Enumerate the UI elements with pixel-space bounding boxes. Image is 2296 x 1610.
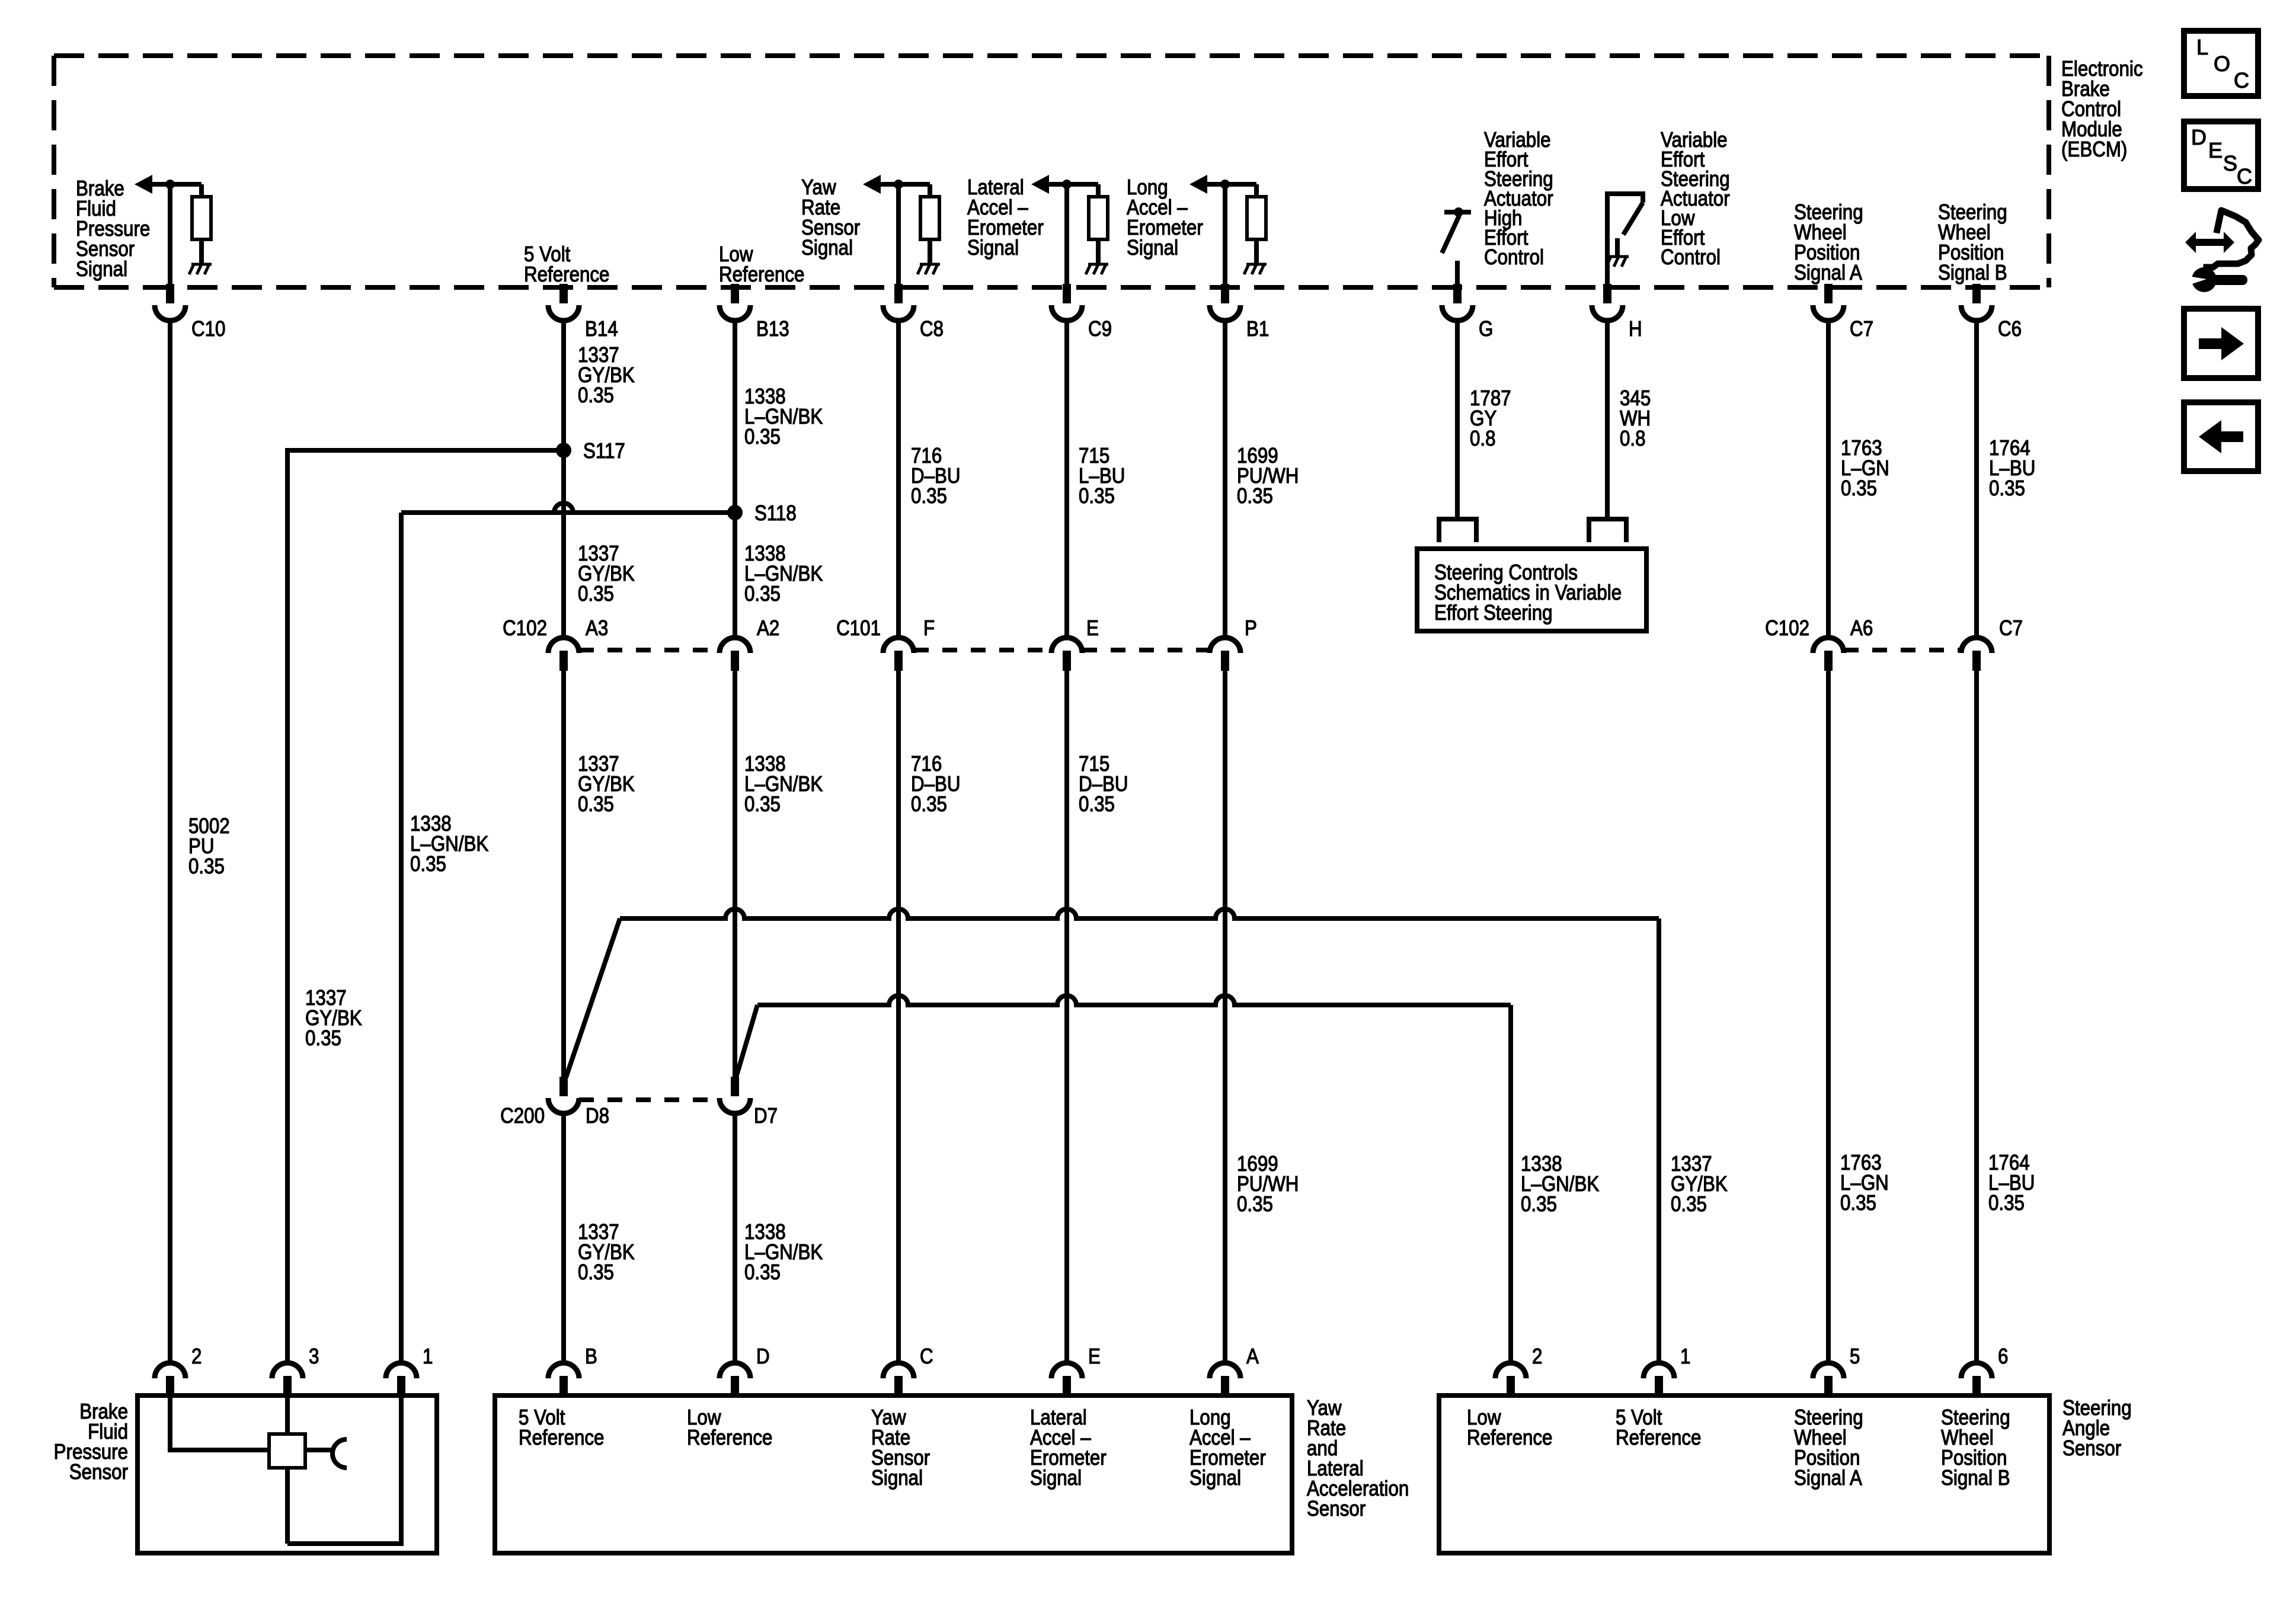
icon box DESC [2184,121,2258,189]
pin label B14 [585,317,618,341]
svg-text:2: 2 [1532,1345,1542,1369]
wire 5002 PU (C10 to brake fluid pressure sensor pin 2) [168,320,172,1364]
terminal label Steering Wheel Position Signal B (pin 6) [1941,1406,2010,1490]
component box Brake Fluid Pressure Sensor [137,1395,437,1553]
net label Variable Effort Steering Actuator High Effort Control [1484,128,1553,270]
svg-text:C102: C102 [503,616,547,641]
off-page connector bracket (G wire into steering controls) [1439,519,1476,542]
pin label D [756,1345,770,1369]
pin label A6 [1850,616,1873,641]
module box EBCM (dashed outline) [54,56,2049,287]
wire 1338 L-GN/BK (B13 down to splice S118) [733,320,737,513]
connector pin C (component side) [883,1363,914,1396]
svg-text:3: 3 [309,1345,319,1369]
connector label C102 (right) [1765,616,1809,641]
wire 1338 L-GN/BK (C102 A2 to C200 D7) [733,671,737,1080]
wire 1337 GY/BK (S117 to C102 A3) [561,450,566,638]
terminal label Steering Wheel Position Signal A (pin 5) [1794,1406,1863,1490]
svg-text:A3: A3 [586,616,608,641]
svg-text:E: E [1086,616,1099,641]
wire 345 WH (H down to steering controls) [1605,320,1610,519]
svg-text:C102: C102 [1765,616,1809,641]
wire resistor to ground [1096,239,1101,263]
node label S117 [583,439,625,463]
terminal label Low Reference (pin D) [687,1406,772,1450]
ground (EBCM internal, yaw rate signal) [917,264,940,274]
wire 1763 L-GN (C7 to C102 A6) [1826,320,1831,638]
pin label E [1088,1345,1101,1369]
wire junction to pin C10 [168,184,172,288]
resistor (EBCM internal pull-up, yaw rate signal) [920,184,939,239]
svg-text:D7: D7 [754,1104,778,1128]
net label Long Accel - Erometer Signal [1127,175,1203,260]
wire 1337 GY/BK long branch (C200 D8 diagonal up to horizontal run, right to steering angle sensor pin 1) [566,909,1659,1364]
wire 1338 L-GN/BK branch (S118 left, hops B14 wire, down to sensor pin 1) [401,503,735,1364]
net label Yaw Rate Sensor Signal [801,175,860,260]
wire label 1338 L-GN/BK 0.35 (bottom left) [744,1220,823,1285]
connector label C200 [500,1104,545,1128]
net label Lateral Accel - Erometer Signal [967,175,1044,260]
net label 5 Volt Reference (B14) [524,242,609,287]
wire 1338 L-GN/BK (C200 D7 to yaw sensor pin D) [733,1113,737,1364]
connector pin 1 (component side) [1643,1363,1674,1396]
connector C102 pin C7 (right) [1961,638,1992,671]
wire 1337 GY/BK branch (S117 left and down to sensor pin 3) [287,450,564,1364]
wire junction to pin B1 [1223,184,1227,288]
wire label 1337 GY/BK 0.35 (below B14) [578,343,635,408]
wire (resistor to wiper) [305,1448,332,1452]
connector pin D (component side) [720,1363,750,1396]
connector C101 pin F [883,638,914,671]
pin label E [1086,616,1099,641]
connector C102 pin A6 (right) [1813,638,1844,671]
connector pin 3 (component side) [272,1363,303,1396]
wire 1787 GY (G down to steering controls) [1455,320,1460,519]
svg-text:C: C [2234,68,2249,92]
connector link dash C102 A3-A2 [579,648,720,652]
connector pin 5 (component side) [1813,1363,1844,1396]
connector pin E (component side) [1051,1363,1082,1396]
svg-text:A6: A6 [1850,616,1873,641]
pin label C6 [1998,317,2022,341]
pin label G [1479,317,1493,341]
wire label 1787 GY 0.8 [1470,386,1511,451]
pin label B13 [756,317,789,341]
pin label C8 [920,317,944,341]
terminal label 5 Volt Reference (pin 1) [1616,1406,1701,1450]
svg-text:VariableEffortSteeringActuator: VariableEffortSteeringActuatorHighEffort… [1484,128,1553,270]
pin label 5 [1850,1345,1860,1369]
wire label 715 L-BU 0.35 (below C9) [1079,444,1125,508]
wire 1337 GY/BK (C200 D8 to yaw sensor pin B) [561,1113,566,1364]
svg-text:5: 5 [1850,1345,1860,1369]
pin label 1 [423,1345,433,1369]
svg-text:E: E [2208,138,2223,162]
internal driver: brake fluid pressure sensor signal arrow and junction [135,175,202,194]
net label Brake Fluid Pressure Sensor Signal [76,177,150,281]
wire label 345 WH 0.8 [1620,386,1651,451]
wire 1764 L-BU (C102 C7 to steering angle sensor pin 6) [1974,671,1979,1364]
pin label 1 [1680,1345,1690,1369]
wire label 1763 L-GN 0.35 (lower) [1840,1151,1889,1215]
wire 1337 GY/BK (B14 down to splice S117) [561,320,566,450]
pin label 3 [309,1345,319,1369]
pin label C7 [1850,317,1873,341]
wire 1764 L-BU (C6 to C102 C7) [1974,320,1979,638]
wire 1699 PU/WH (C101 P to yaw sensor pin A) [1223,671,1227,1364]
wire 1699 PU/WH (B1 to C101 P) [1223,320,1227,638]
connector pin C10 (EBCM) [155,284,186,321]
wire (pin 2 internal) [170,1396,269,1450]
connector C102 pin A2 [720,638,750,671]
wire (pin 3 internal through element) [285,1396,290,1544]
resistor (EBCM internal pull-up, brake fluid signal) [192,184,211,239]
ground (EBCM internal, brake fluid signal) [189,264,212,274]
pin label C7 [1999,616,2023,641]
wire 715 D-BU (C101 E to yaw sensor pin E) [1064,671,1069,1364]
pin label C [920,1345,933,1369]
connector label C102 (left) [503,616,547,641]
wire 1337 GY/BK (C102 A3 to C200 D8) [561,671,566,1080]
pin label B [585,1345,597,1369]
connector pin B14 (EBCM) [548,284,579,321]
wire label 715 D-BU 0.35 (mid) [1079,752,1128,817]
wire 716 D-BU (C8 to C101 F) [896,320,901,638]
svg-text:C7: C7 [1999,616,2023,641]
terminal label Long Accel - Erometer Signal (pin A) [1189,1406,1266,1490]
pin label D8 [586,1104,609,1128]
pin label A3 [586,616,608,641]
wire label 1337 GY/BK 0.35 (right lower) [1671,1152,1728,1217]
svg-text:S118: S118 [754,501,797,526]
pin label 2 [1532,1345,1542,1369]
component box Yaw Rate and Lateral Acceleration Sensor [495,1395,1292,1553]
connector C102 pin A3 [548,638,579,671]
connector C200 pin D8 [548,1077,579,1113]
internal driver: long accelerometer signal arrow and junction [1189,175,1256,194]
wire label 1763 L-GN 0.35 (below C7) [1841,436,1889,501]
pin label C9 [1088,317,1112,341]
icon box arrow right [2184,309,2258,378]
svg-text:E: E [1088,1345,1101,1369]
connector C101 pin P [1210,638,1240,671]
svg-text:C: C [2237,164,2252,188]
net label Variable Effort Steering Actuator Low Effort Control [1661,128,1730,270]
svg-text:L: L [2196,35,2208,59]
svg-text:C9: C9 [1088,317,1112,341]
connector pin C7 (EBCM) [1813,284,1844,321]
svg-text:C: C [920,1345,933,1369]
ground (EBCM internal, low effort control) [1606,257,1629,267]
svg-text:SteeringWheelPositionSignal B: SteeringWheelPositionSignal B [1938,200,2007,285]
terminal label Low Reference (pin 2) [1467,1406,1552,1450]
svg-text:S: S [2223,151,2237,175]
wire junction to pin C8 [896,184,901,288]
off-page connector bracket (H wire into steering controls) [1589,519,1626,542]
resistor (pressure sensing element) [269,1434,305,1468]
wire 1763 L-GN (C102 A6 to steering angle sensor pin 5) [1826,671,1831,1364]
pin label 6 [1998,1345,2008,1369]
svg-text:C8: C8 [920,317,944,341]
svg-text:C6: C6 [1998,317,2022,341]
pin label F [923,616,935,641]
module label Electronic Brake Control Module (EBCM) [2061,57,2142,162]
ground (EBCM internal, lateral accel signal) [1086,264,1108,274]
terminal label 5 Volt Reference (pin B) [519,1406,604,1450]
terminal label Lateral Accel - Erometer Signal (pin E) [1030,1406,1107,1490]
svg-text:D: D [2191,125,2207,149]
connector pin C6 (EBCM) [1961,284,1992,321]
transducer symbol (open arc) [332,1439,347,1468]
svg-text:2: 2 [191,1345,202,1369]
wire label 5002 PU 0.35 [188,814,230,879]
wire resistor to ground [928,239,932,263]
wire label 1338 L-GN/BK 0.35 (mid) [744,752,823,817]
svg-text:B14: B14 [585,317,618,341]
svg-text:A: A [1246,1345,1259,1369]
pin label B1 [1246,317,1269,341]
svg-text:C10: C10 [191,317,225,341]
terminal label Yaw Rate Sensor Signal (pin C) [871,1406,930,1490]
pin label 2 [191,1345,202,1369]
wire 1338 L-GN/BK (S118 to C102 A2) [733,513,737,638]
internal driver: lateral accelerometer signal arrow and junction [1031,175,1098,194]
ground (EBCM internal, long accel signal) [1244,264,1267,274]
svg-text:D: D [756,1345,770,1369]
svg-text:B1: B1 [1246,317,1269,341]
wire resistor to ground [1254,239,1259,263]
wire 716 D-BU (C101 F to yaw sensor pin C) [896,671,901,1364]
resistor (EBCM internal pull-up, long accel signal) [1247,184,1266,239]
wire label 1764 L-BU 0.35 (lower) [1988,1151,2035,1215]
wire resistor to ground [199,239,204,263]
reference box: Steering Controls Schematics in Variable Effort Steering [1417,549,1646,631]
svg-text:SteeringWheelPositionSignal B: SteeringWheelPositionSignal B [1941,1406,2010,1490]
connector pin 2 (component side) [1495,1363,1526,1396]
connector C101 pin E [1051,638,1082,671]
svg-text:H: H [1629,317,1642,341]
switch (EBCM internal, low effort control driver) [1607,194,1643,288]
connector pin 2 (component side) [155,1363,186,1396]
net label Steering Wheel Position Signal A [1794,200,1863,285]
pin label C10 [191,317,225,341]
connector link dash C200 D8-D7 [579,1097,720,1102]
svg-text:C7: C7 [1850,317,1873,341]
svg-text:6: 6 [1998,1345,2008,1369]
wire junction to pin C9 [1064,184,1069,288]
svg-text:S117: S117 [583,439,625,463]
wire label 1338 L-GN/BK 0.35 (above C102 A2) [744,542,823,606]
svg-text:C101: C101 [836,616,881,641]
connector link dash C102 A6-C7 [1844,648,1961,652]
svg-text:F: F [923,616,935,641]
connector pin G (EBCM) [1442,284,1473,321]
pin label H [1629,317,1642,341]
wire (element to pin 1 internal) [287,1396,401,1544]
connector pin B13 (EBCM) [720,284,750,321]
wire 715 L-BU (C9 to C101 E) [1064,320,1069,638]
wire label 1338 L-GN/BK 0.35 (branch) [410,812,489,876]
component label Steering Angle Sensor [2062,1396,2132,1461]
svg-text:C200: C200 [500,1104,545,1128]
svg-text:1: 1 [423,1345,433,1369]
wire label 1699 PU/WH 0.35 (below B1) [1237,444,1299,508]
svg-text:1: 1 [1680,1345,1690,1369]
connector link dash C101 F-E-P [914,648,1210,652]
connector C200 pin D7 [720,1077,750,1113]
wire label 716 D-BU 0.35 (below C8) [911,444,961,508]
connector pin 1 (component side) [386,1363,417,1396]
connector pin C9 (EBCM) [1051,284,1082,321]
internal driver: yaw rate sensor signal arrow and junction [863,175,930,194]
splice S117 [556,443,571,458]
wire label 1337 GY/BK 0.35 (bottom left) [578,1220,635,1285]
component label Brake Fluid Pressure Sensor [54,1400,128,1484]
svg-text:VariableEffortSteeringActuator: VariableEffortSteeringActuatorLowEffortC… [1661,128,1730,270]
connector pin A (component side) [1210,1363,1240,1396]
svg-text:D8: D8 [586,1104,609,1128]
resistor (EBCM internal pull-up, lateral accel signal) [1089,184,1108,239]
pin label D7 [754,1104,778,1128]
icon box arrow left [2184,402,2258,471]
splice S118 [727,505,743,520]
wire label 716 D-BU 0.35 (mid) [911,752,961,817]
component box Steering Angle Sensor [1439,1395,2049,1553]
net label Steering Wheel Position Signal B [1938,200,2007,285]
connector pin B (component side) [548,1363,579,1396]
connector pin B1 (EBCM) [1210,284,1240,321]
wire label 1337 GY/BK 0.35 (mid) [578,752,635,817]
wire 1338 L-GN/BK long branch (C200 D7 diagonal up to horizontal run, right to steering angle sensor pin 2) [736,996,1511,1364]
wire label 1337 GY/BK 0.35 (branch) [305,986,362,1051]
svg-text:O: O [2214,52,2230,76]
pin label A [1246,1345,1259,1369]
pin label A2 [757,616,779,641]
wire label 1338 L-GN/BK 0.35 (right lower) [1521,1152,1600,1217]
connector pin H (EBCM) [1592,284,1623,321]
svg-text:SteeringWheelPositionSignal A: SteeringWheelPositionSignal A [1794,200,1863,285]
icon steering adjust (double arrow, knuckle outline, wrench) [2185,210,2259,292]
wire label 1337 GY/BK 0.35 (above C102 A3) [578,542,635,606]
node label S118 [754,501,797,526]
switch (EBCM internal, high effort control driver) [1442,207,1471,288]
connector pin C8 (EBCM) [883,284,914,321]
svg-text:G: G [1479,317,1493,341]
svg-text:P: P [1245,616,1257,641]
wire label 1764 L-BU 0.35 (below C6) [1989,436,2035,501]
connector pin 6 (component side) [1961,1363,1992,1396]
svg-text:SteeringWheelPositionSignal A: SteeringWheelPositionSignal A [1794,1406,1863,1490]
wire label 1699 PU/WH 0.35 (lower) [1237,1152,1299,1217]
connector label C101 [836,616,881,641]
icon box LOC [2184,31,2258,96]
component label Yaw Rate and Lateral Acceleration Sensor [1307,1396,1409,1521]
net label Low Reference (B13) [719,242,804,287]
svg-text:B: B [585,1345,597,1369]
svg-text:A2: A2 [757,616,779,641]
svg-text:B13: B13 [756,317,789,341]
wire label 1338 L-GN/BK 0.35 (below B13) [744,385,823,449]
pin label P [1245,616,1257,641]
